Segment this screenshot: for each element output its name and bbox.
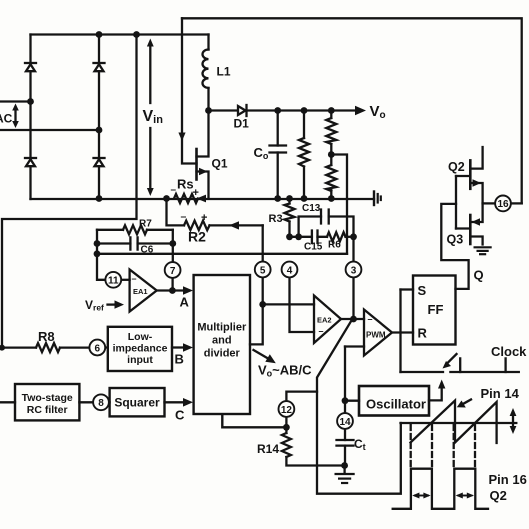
svg-text:7: 7	[170, 266, 176, 277]
svg-text:Pin 16: Pin 16	[489, 472, 527, 487]
svg-text:AC: AC	[0, 112, 13, 126]
svg-text:–: –	[319, 326, 324, 336]
svg-text:Q: Q	[474, 268, 484, 283]
svg-text:12: 12	[281, 405, 293, 416]
svg-text:C15: C15	[304, 242, 323, 253]
svg-text:divider: divider	[204, 348, 241, 360]
svg-text:A: A	[180, 295, 190, 310]
svg-text:R2: R2	[188, 229, 206, 245]
svg-text:3: 3	[351, 265, 357, 276]
svg-text:PWM: PWM	[366, 331, 386, 340]
svg-text:RC filter: RC filter	[27, 404, 68, 416]
svg-text:R: R	[418, 326, 428, 341]
svg-text:EA2: EA2	[317, 316, 332, 325]
svg-text:Multiplier: Multiplier	[197, 322, 247, 334]
svg-text:Pin 14: Pin 14	[481, 386, 520, 401]
svg-text:Clock: Clock	[491, 344, 527, 359]
svg-text:Low-: Low-	[128, 331, 153, 343]
svg-text:R14: R14	[257, 442, 279, 456]
svg-text:D1: D1	[234, 117, 250, 131]
svg-text:Two-stage: Two-stage	[22, 392, 73, 404]
svg-text:R7: R7	[139, 219, 152, 230]
svg-text:L1: L1	[217, 65, 231, 79]
svg-text:Oscillator: Oscillator	[366, 397, 426, 412]
svg-text:16: 16	[497, 199, 509, 210]
svg-text:6: 6	[95, 343, 101, 354]
svg-text:–: –	[368, 314, 373, 324]
svg-text:R8: R8	[38, 329, 55, 344]
svg-text:+: +	[193, 187, 199, 199]
svg-text:8: 8	[98, 398, 104, 409]
svg-text:Squarer: Squarer	[114, 396, 160, 410]
svg-text:+: +	[201, 212, 207, 224]
svg-text:Vo~AB/C: Vo~AB/C	[258, 363, 312, 379]
svg-text:R3: R3	[269, 213, 283, 225]
svg-text:C6: C6	[141, 245, 154, 256]
svg-text:and: and	[212, 335, 232, 347]
svg-text:Q1: Q1	[212, 157, 228, 171]
svg-text:Q3: Q3	[447, 233, 464, 247]
svg-text:C13: C13	[302, 203, 321, 214]
svg-text:C: C	[175, 408, 185, 423]
svg-text:–: –	[132, 274, 137, 284]
svg-text:5: 5	[260, 265, 266, 276]
svg-text:4: 4	[287, 265, 293, 276]
svg-text:S: S	[418, 283, 427, 298]
svg-text:FF: FF	[428, 302, 444, 317]
svg-text:Q2: Q2	[490, 488, 507, 503]
svg-text:B: B	[175, 352, 184, 367]
svg-text:–: –	[171, 185, 177, 196]
svg-text:–: –	[181, 211, 187, 223]
svg-text:Rs: Rs	[177, 177, 194, 192]
svg-text:R6: R6	[328, 240, 341, 251]
svg-text:11: 11	[108, 276, 119, 287]
svg-text:14: 14	[339, 417, 351, 428]
svg-text:Q2: Q2	[448, 160, 465, 174]
svg-text:EA1: EA1	[133, 287, 148, 296]
svg-text:input: input	[127, 354, 153, 366]
svg-text:impedance: impedance	[113, 343, 168, 355]
